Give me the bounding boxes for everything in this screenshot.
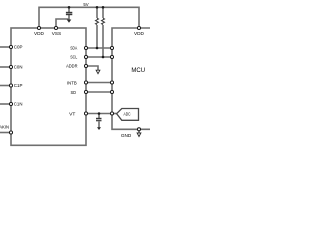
wire ADDR to ground arrow (86, 66, 98, 70)
wire pin stub C1N (0, 103, 11, 105)
pin SDA U1 (84, 46, 87, 49)
pin SCL U1 (84, 55, 87, 58)
wire 5V rail (39, 7, 139, 28)
wire C2 bottom (98, 122, 100, 128)
pin C0P (9, 45, 12, 48)
svg-text:SD: SD (71, 90, 77, 95)
wire VT (86, 113, 112, 115)
pin C0N (9, 65, 12, 68)
svg-text:MCU: MCU (131, 68, 145, 74)
wire resistor R2 vertical (102, 7, 104, 18)
wire pin stub AKIN (0, 132, 11, 134)
svg-text:VDD: VDD (134, 31, 145, 36)
ground arrow at ADDR (96, 70, 100, 74)
pin VSS U1 (54, 26, 57, 29)
wire C1 bottom (68, 15, 70, 20)
svg-text:ADC: ADC (124, 111, 131, 116)
node VT-C2 (98, 112, 101, 115)
wire SCL (86, 56, 112, 58)
chip U1 box (11, 28, 86, 145)
svg-text:GND: GND (121, 133, 132, 138)
pin C1P (9, 84, 12, 87)
pin SD MCU (110, 90, 113, 93)
capacitor C2 plates (96, 119, 102, 121)
wire GND stem (138, 129, 140, 133)
wire C1 branch from rail (68, 7, 70, 12)
svg-text:SCL: SCL (70, 55, 77, 60)
svg-text:C1P: C1P (14, 83, 23, 88)
pin INTB U1 (84, 81, 87, 84)
pin GND MCU (137, 128, 140, 131)
pin SCL MCU (110, 55, 113, 58)
pin AKIN (9, 131, 12, 134)
wire resistor R1 vertical (96, 7, 98, 18)
svg-text:VDD: VDD (34, 31, 45, 36)
pin SDA MCU (110, 46, 113, 49)
svg-text:C0N: C0N (14, 65, 23, 70)
svg-text:5V: 5V (83, 2, 89, 7)
resistor R1 zigzag (96, 18, 99, 24)
pin VT MCU (110, 112, 113, 115)
ground (filled) at C2 (97, 127, 101, 130)
pin ADDR U1 (84, 64, 87, 67)
svg-text:AKIN: AKIN (0, 125, 9, 130)
wire VSS to ground (56, 19, 69, 28)
pin VDD U1 (37, 26, 40, 29)
pin C1N (9, 102, 12, 105)
pin VT U1 (84, 112, 87, 115)
pin INTB MCU (110, 81, 113, 84)
wire C2 branch (98, 114, 100, 119)
svg-text:SDA: SDA (70, 46, 78, 51)
wire SD (86, 91, 112, 93)
node rail-C1 (68, 6, 71, 9)
junction dots (68, 6, 105, 115)
svg-text:INTB: INTB (67, 81, 77, 86)
svg-text:C1N: C1N (14, 102, 23, 107)
pin circles (9, 26, 140, 134)
wire SDA (86, 47, 112, 49)
node rail-R1 (96, 6, 99, 9)
svg-text:ADDR: ADDR (66, 64, 78, 69)
wire pin stub C0N (0, 66, 11, 68)
svg-text:VSS: VSS (52, 31, 61, 36)
resistor R2 zigzag (102, 18, 105, 24)
svg-text:C0P: C0P (14, 45, 23, 50)
node rail-R2 (102, 6, 105, 9)
ground arrow at MCU GND (137, 133, 141, 137)
node R1-SDA (96, 47, 99, 50)
ground (filled) at C1 (67, 20, 72, 23)
node R2-SCL (102, 56, 105, 59)
MCU box (112, 28, 152, 129)
ADC flag box (117, 109, 139, 121)
wire pin stub C0P (0, 46, 11, 48)
pin VDD MCU (137, 26, 140, 29)
svg-text:VT: VT (69, 112, 75, 117)
capacitor C1 plates (66, 13, 72, 15)
pin SD U1 (84, 90, 87, 93)
wire pin stub C1P (0, 85, 11, 87)
wire ADC flag stub (112, 113, 117, 115)
wire INTB (86, 82, 112, 84)
